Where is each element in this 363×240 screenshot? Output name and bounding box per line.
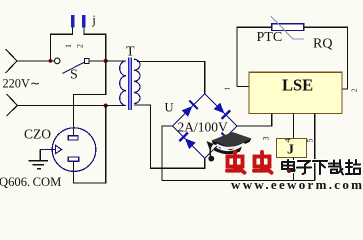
wire LSE pin5 down to DC- rail (314, 114, 316, 181)
ground (29, 150, 48, 169)
wire switch to transformer junction (89, 60, 104, 62)
svg-text:S: S (70, 68, 78, 83)
svg-text:www.eeworm.com: www.eeworm.com (231, 177, 363, 190)
svg-text:T: T (126, 44, 135, 59)
wire plug prong2 to switched node (84, 28, 106, 61)
plug j prong 2 (82, 15, 85, 28)
wire secondary bottom to bridge AC bottom (134, 105, 205, 168)
watermark text zhan (346, 160, 360, 174)
wire secondary top to bridge AC top (137, 62, 205, 94)
svg-text:PTC: PTC (257, 30, 283, 45)
diode D4 bottom-right (214, 138, 225, 149)
watermark text dian (282, 160, 295, 171)
wire neutral to transformer primary bottom (106, 104, 127, 106)
svg-text:Q606. COM: Q606. COM (0, 175, 61, 189)
wire relay J to DC- rail (293, 158, 295, 181)
node N (220V neutral input fork) (7, 94, 18, 116)
switch S right contact (84, 59, 89, 64)
transformer T core (129, 58, 132, 111)
svg-text:J: J (287, 143, 294, 158)
wire live input to switch (17, 60, 55, 62)
svg-text:4: 4 (284, 139, 293, 143)
wire CZO bottom slot to neutral (74, 106, 106, 184)
node L (220V live input fork) (6, 49, 18, 73)
wire PTC right to LSE pin2 (304, 27, 348, 89)
junction dot switched live (104, 59, 108, 63)
wire bridge DC- rail (162, 126, 315, 181)
diode D1 top-left (182, 106, 193, 117)
watermark text zi (297, 161, 311, 174)
switch S blade (63, 62, 85, 73)
watermark chong char 2 (254, 152, 272, 173)
watermark text zai (329, 160, 343, 175)
svg-text:2: 2 (351, 88, 359, 92)
wire LSE pin1 to PTC left (237, 27, 272, 86)
thermistor RQ diagonal mark (271, 16, 304, 39)
watermark text xia (313, 161, 327, 174)
svg-text:U: U (165, 101, 174, 115)
svg-text:2: 2 (76, 44, 85, 48)
switch S left contact (54, 58, 60, 64)
svg-text:1: 1 (64, 44, 73, 48)
transformer T secondary winding (134, 59, 140, 103)
bridge rectifier U outline (173, 94, 237, 158)
svg-text:220V∼: 220V∼ (3, 76, 41, 90)
socket CZO earth arrow (40, 145, 61, 153)
socket CZO bottom slot (68, 157, 79, 161)
diode D2 top-right (214, 103, 225, 114)
wire switched live down to CZO branch (74, 61, 106, 136)
wire LSE pin4 to relay J (293, 114, 295, 139)
svg-text:5: 5 (306, 139, 315, 143)
junction dot neutral (104, 104, 108, 108)
wire plug prong1 to live node (50, 28, 72, 61)
socket CZO circle (52, 128, 96, 172)
svg-text:1: 1 (224, 87, 232, 91)
svg-text:2A/100V: 2A/100V (178, 120, 229, 135)
module LSE box (249, 72, 342, 113)
svg-text:LSE: LSE (282, 76, 313, 95)
junction dot live/plug (49, 59, 53, 63)
watermark graduation cap logo (207, 132, 252, 162)
relay J box (277, 138, 307, 157)
svg-text:j: j (91, 12, 96, 27)
thermistor RQ body (272, 24, 304, 31)
diode D3 bottom-left (185, 138, 196, 149)
watermark chong char 1 (227, 152, 245, 173)
wire to transformer primary top (106, 60, 127, 62)
plug j prong 1 (71, 15, 74, 28)
junction dot (red, on watermark) (287, 169, 291, 173)
svg-text:3: 3 (262, 137, 271, 141)
transformer T primary winding (120, 61, 127, 106)
wire neutral line (17, 104, 105, 106)
svg-text:CZO: CZO (24, 126, 51, 141)
svg-text:RQ: RQ (313, 37, 332, 52)
socket CZO top slot (68, 136, 78, 140)
wire bridge DC+ to LSE pin3 (237, 114, 272, 126)
